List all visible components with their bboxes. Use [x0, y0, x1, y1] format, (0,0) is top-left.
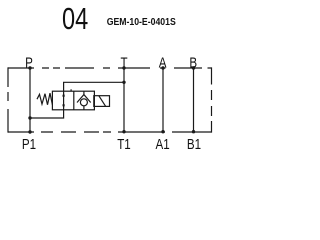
node P	[28, 66, 31, 69]
wire P tap to valve bottom	[30, 110, 64, 118]
arrowhead up	[62, 92, 65, 96]
svg-text:P: P	[25, 54, 33, 71]
svg-text:P1: P1	[22, 136, 36, 153]
svg-text:T1: T1	[117, 136, 131, 153]
plate boundary top edge (dashed)	[8, 67, 212, 69]
node B1	[192, 130, 195, 133]
node A	[161, 66, 164, 69]
node B	[192, 66, 195, 69]
svg-text:B1: B1	[187, 136, 201, 153]
label P1	[22, 136, 36, 153]
valve V1 body	[52, 91, 94, 110]
node P1	[28, 130, 31, 133]
solenoid diagonal	[99, 96, 106, 107]
svg-text:T: T	[120, 54, 127, 71]
label B	[189, 54, 197, 71]
model label GEM-10-E-0401S	[107, 16, 176, 27]
title 04	[62, 1, 88, 36]
P line	[29, 68, 31, 132]
svg-text:A1: A1	[156, 136, 170, 153]
svg-text:GEM-10-E-0401S: GEM-10-E-0401S	[107, 16, 176, 27]
junction T tap	[122, 81, 125, 84]
junction P tap	[28, 116, 31, 119]
arrowhead down	[62, 105, 65, 109]
plate boundary right edge (dashed)	[211, 67, 213, 132]
label A	[159, 54, 167, 71]
T line	[123, 68, 125, 132]
wire valve top to T	[64, 82, 124, 91]
check valve seat wedge	[77, 95, 91, 103]
label P	[25, 54, 33, 71]
valve V1 flow path (open position)	[63, 91, 65, 110]
check valve outlet line	[83, 106, 85, 110]
svg-text:04: 04	[62, 1, 88, 36]
plate boundary left edge (dashed)	[7, 67, 9, 132]
label B1	[187, 136, 201, 153]
svg-text:B: B	[189, 54, 197, 71]
valve V1 position divider	[73, 91, 75, 110]
svg-text:A: A	[159, 54, 167, 71]
label T	[120, 54, 127, 71]
node A1	[161, 130, 164, 133]
check valve seat line	[83, 91, 85, 94]
label A1	[156, 136, 170, 153]
solenoid box	[94, 96, 110, 107]
A line	[162, 68, 164, 132]
node T	[122, 66, 125, 69]
node T1	[122, 130, 125, 133]
plate boundary bottom edge (dashed)	[8, 131, 212, 133]
check valve ball	[80, 99, 87, 106]
port tick	[70, 89, 72, 91]
spring	[37, 93, 52, 105]
B line	[193, 68, 195, 132]
label T1	[117, 136, 131, 153]
